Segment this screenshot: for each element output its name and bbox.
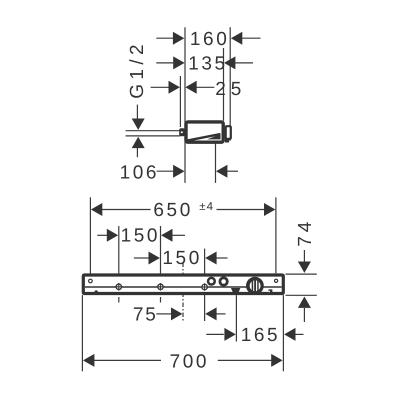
button ring 1: [207, 277, 216, 286]
hole 1: [115, 283, 123, 291]
arrows: dim 150#2: [149, 252, 160, 265]
spout trapezoid: [231, 288, 241, 292]
svg-text:135: 135: [188, 54, 228, 75]
arrows: dim 75: [171, 307, 182, 320]
dim 135 leaders: [156, 62, 173, 64]
right small block: [268, 289, 272, 292]
button ring 2: [219, 276, 229, 286]
arrows: dim 700 (inside, pointing out): [83, 354, 94, 367]
dim 150#1 leaders: [97, 234, 107, 236]
side view wall port (right protrusion): [225, 126, 231, 142]
svg-text:106: 106: [120, 162, 160, 183]
side view supply nub: [179, 128, 185, 136]
side view shelf wedge: [207, 134, 221, 139]
pipe line bottom: [126, 135, 180, 137]
extension line hole1 (x=118.8): [118, 226, 120, 273]
dim 25 leaders: [151, 86, 169, 88]
arrows: dim 25: [169, 81, 180, 94]
svg-text:150: 150: [162, 248, 202, 269]
arrows: dim 165: [224, 328, 235, 341]
extension line 700 left (x=82.4): [81, 295, 83, 371]
extension line C (135 right, x=223.5): [223, 48, 225, 121]
extension line B (160 right, x=230.2): [229, 27, 231, 140]
dim 75 leaders: [156, 313, 171, 315]
arrows: dim 106: [173, 165, 184, 178]
extension line hole3 (x=204.6): [204, 249, 206, 321]
hole 2: [156, 283, 164, 291]
extension line hole2 (x=160.5): [160, 226, 162, 273]
G 1/2 pointer upper line: [136, 105, 138, 119]
arrow: G1/2 down: [132, 118, 145, 129]
pipe line top: [126, 130, 180, 132]
svg-text:700: 700: [170, 352, 210, 373]
thermostat knob: [246, 277, 264, 295]
extension line A (front plane, x=185): [184, 27, 186, 183]
extension line 650 right (x=275.9): [275, 197, 277, 273]
dim 165 leaders: [206, 333, 224, 335]
svg-text:165: 165: [241, 325, 281, 346]
dim 650 leaders: [102, 209, 151, 211]
arrow: G1/2 up: [132, 137, 145, 148]
G 1/2 pointer lower line: [136, 148, 138, 157]
extension line 650 left (x=90.4): [89, 197, 91, 278]
arrows: dim 135: [173, 56, 184, 69]
svg-text:150: 150: [121, 226, 161, 247]
bar outline (front view): [83, 275, 283, 294]
svg-text:G1/2: G1/2: [127, 40, 148, 99]
svg-text:25: 25: [215, 79, 246, 100]
dim 150#2 leaders: [134, 257, 149, 259]
right small ring: [275, 279, 278, 282]
side view diagonal shelf line: [187, 134, 220, 141]
arrows: dim 74: [298, 262, 311, 273]
dim 700 leaders: [94, 359, 161, 361]
extension line 165 left (x=236.4): [235, 295, 237, 341]
dim 160 leaders: [156, 37, 173, 39]
extension line E (106 right, x=215.5): [215, 142, 217, 183]
dim 74 pointer lines: [303, 250, 305, 262]
extension line 700/165 right (x=283.4): [282, 295, 284, 371]
svg-text:±4: ±4: [199, 201, 214, 213]
left small ring: [89, 279, 93, 283]
arrows: dim 160: [173, 32, 184, 45]
dim 106 leaders: [157, 170, 174, 172]
left small dot: [95, 290, 98, 293]
hole 3: [200, 283, 208, 291]
svg-text:650: 650: [153, 200, 193, 221]
svg-text:160: 160: [190, 29, 230, 50]
arrows: dim 650 (inside, pointing out): [91, 203, 102, 216]
svg-text:75: 75: [133, 304, 158, 325]
svg-text:74: 74: [295, 218, 316, 247]
bar inner shelf line: [85, 286, 282, 288]
arrows: dim 150#1: [107, 229, 118, 242]
dim 74 extension lines: [286, 273, 317, 275]
side view body outline: [186, 122, 223, 142]
extension line D (25 left, x=180.4): [179, 76, 181, 127]
centre line (dash-dot, x=183): [182, 263, 184, 321]
